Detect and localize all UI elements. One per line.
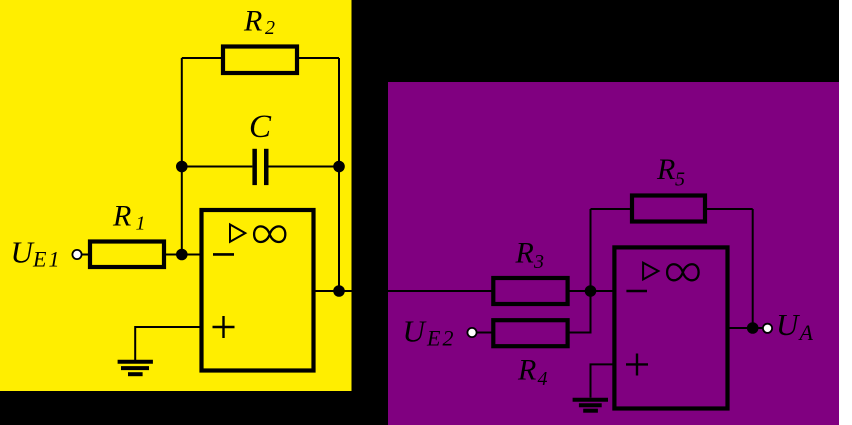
svg-text:R: R (656, 153, 675, 186)
svg-text:R: R (517, 353, 536, 386)
svg-text:3: 3 (533, 251, 544, 273)
svg-text:U: U (403, 313, 428, 348)
svg-text:2: 2 (265, 17, 275, 39)
svg-text:R: R (112, 199, 131, 232)
svg-text:E1: E1 (32, 247, 61, 272)
svg-text:5: 5 (675, 168, 685, 190)
svg-text:C: C (249, 109, 272, 145)
svg-text:A: A (798, 320, 814, 345)
svg-text:E2: E2 (426, 325, 455, 350)
svg-text:R: R (243, 4, 262, 37)
svg-text:4: 4 (538, 368, 548, 390)
svg-text:U: U (11, 235, 36, 270)
svg-text:1: 1 (136, 213, 146, 235)
svg-text:U: U (776, 307, 801, 342)
svg-text:R: R (515, 236, 534, 269)
